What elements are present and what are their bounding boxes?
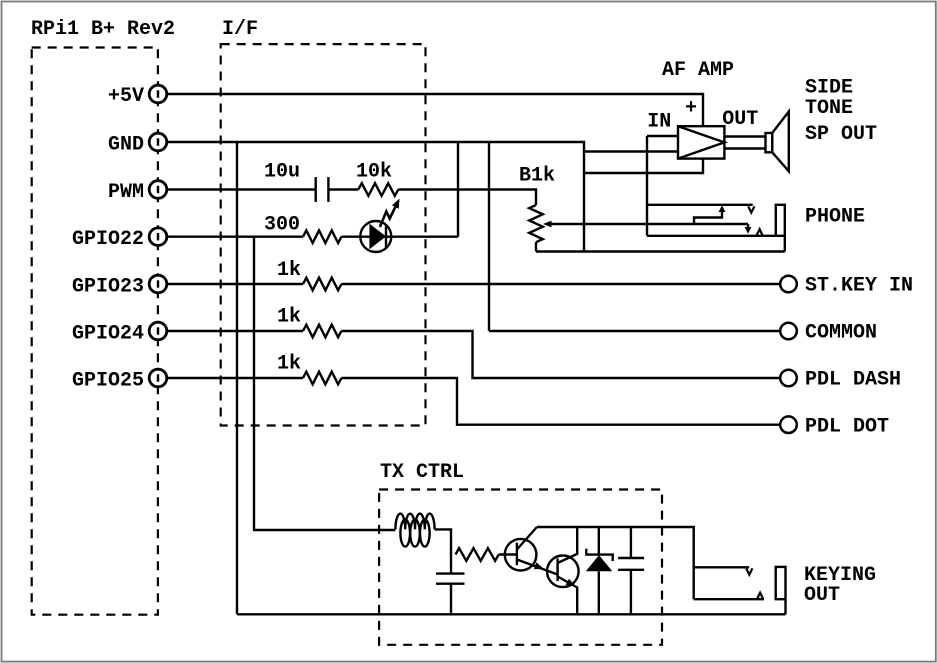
svg-text:PDL DASH: PDL DASH [805,369,901,392]
svg-text:B1k: B1k [519,165,555,188]
svg-text:AF AMP: AF AMP [662,59,734,82]
svg-text:1k: 1k [277,353,301,376]
svg-text:GPIO25: GPIO25 [72,369,144,392]
svg-text:10u: 10u [264,161,300,184]
svg-text:ST.KEY IN: ST.KEY IN [805,275,913,298]
svg-text:IN: IN [647,110,671,133]
svg-text:OUT: OUT [804,584,840,607]
svg-text:OUT: OUT [722,108,758,131]
svg-text:+: + [685,97,697,120]
svg-text:RPi1 B+ Rev2: RPi1 B+ Rev2 [31,18,175,41]
svg-text:GPIO24: GPIO24 [72,322,144,345]
svg-text:TONE: TONE [805,97,853,120]
svg-text:PHONE: PHONE [805,206,865,229]
svg-text:PDL DOT: PDL DOT [805,416,889,439]
svg-text:PWM: PWM [108,181,144,204]
svg-text:SP OUT: SP OUT [805,123,877,146]
svg-text:1k: 1k [277,306,301,329]
svg-text:300: 300 [264,213,300,236]
svg-text:+5V: +5V [108,85,144,108]
svg-text:I/F: I/F [222,18,258,41]
svg-text:1k: 1k [277,259,301,282]
svg-text:GND: GND [108,133,144,156]
svg-text:COMMON: COMMON [805,322,877,345]
svg-text:GPIO23: GPIO23 [72,275,144,298]
svg-text:10k: 10k [356,161,392,184]
svg-text:TX CTRL: TX CTRL [380,461,464,484]
svg-text:GPIO22: GPIO22 [72,228,144,251]
